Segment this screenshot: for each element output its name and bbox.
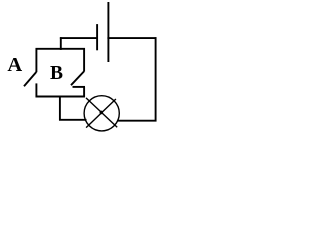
- wire horizontal into lamp left terminal: [59, 119, 87, 121]
- wire top node of parallel switches: [36, 48, 86, 50]
- lamp L1 bulb outline circle: [84, 96, 119, 131]
- wire from battery positive plate going right: [107, 37, 156, 39]
- switch B bottom contact stub: [73, 86, 86, 88]
- battery cell long plate (positive): [107, 2, 109, 62]
- switch B lever (open blade): [71, 71, 84, 85]
- wire right side vertical (return to battery): [155, 37, 157, 121]
- wire left branch lower (switch A bottom contact): [35, 83, 37, 97]
- label A: [7, 54, 22, 76]
- battery cell short plate (negative): [96, 24, 98, 50]
- wire bottom node of parallel switches: [36, 96, 86, 98]
- wire from battery negative plate going left: [60, 37, 98, 39]
- wire vertical step down to switch network top: [60, 37, 62, 50]
- lamp L1 cross stroke NW-SE: [86, 98, 117, 127]
- label B: [50, 63, 63, 84]
- lamp L1 center junction dot: [100, 111, 104, 115]
- lamp L1 cross stroke SW-NE: [86, 99, 116, 128]
- wire drop from bottom node toward lamp: [59, 96, 61, 121]
- wire right branch upper (to switch B): [83, 48, 85, 72]
- svg-text:A: A: [7, 54, 22, 76]
- wire left branch upper (to switch A): [35, 48, 37, 72]
- wire from lamp right terminal: [117, 120, 157, 122]
- svg-text:B: B: [50, 63, 63, 84]
- wire right branch lower: [83, 87, 85, 98]
- switch A lever (open blade): [24, 72, 36, 86]
